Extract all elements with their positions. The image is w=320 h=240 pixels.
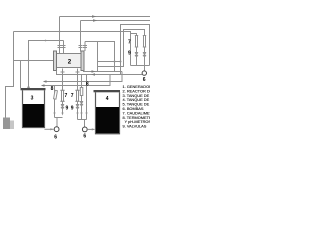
svg-text:9. VALVULAS: 9. VALVULAS — [123, 124, 147, 129]
svg-text:6: 6 — [54, 135, 57, 141]
wire L1 top gas line — [60, 16, 151, 18]
svg-text:8: 8 — [86, 81, 89, 87]
arrow on tank5 bottom line — [92, 70, 96, 72]
wire nested stub N3 — [131, 34, 137, 36]
thermometer col E — [80, 75, 83, 120]
reactor R2 right flange — [81, 51, 84, 71]
thermometer U8 left column — [54, 86, 58, 118]
arrow return 1 — [43, 80, 47, 82]
valve V-A — [61, 105, 64, 109]
arrow into tank4 — [92, 128, 95, 130]
tank4 col F — [86, 75, 88, 120]
wire pump3 drop — [56, 118, 58, 127]
wire header tank4 — [78, 119, 87, 121]
tank T3 rim — [21, 88, 46, 90]
svg-text:6: 6 — [83, 134, 86, 140]
node dot C — [59, 31, 61, 33]
wire pump4 drop — [84, 120, 86, 128]
wire pump4 discharge — [87, 128, 94, 130]
wire header right — [131, 65, 150, 67]
wire tank5 top link — [85, 41, 98, 43]
tank 5 — [98, 42, 121, 72]
wire riser inner loop — [63, 41, 65, 54]
wire return line 1 to tank3 — [42, 71, 122, 86]
wire nested line N1 — [121, 25, 150, 75]
valve V-R1 — [135, 53, 138, 57]
node dot D — [45, 40, 47, 42]
svg-text:7: 7 — [65, 93, 68, 99]
svg-text:7: 7 — [71, 93, 74, 99]
wire tank3 left drop — [20, 61, 22, 89]
wire riser right 1 — [80, 21, 82, 52]
wire return line 2 to tank3 — [42, 75, 110, 86]
wire header tank3 — [55, 117, 63, 119]
arrow L2 a — [93, 19, 98, 22]
svg-text:9: 9 — [71, 105, 74, 111]
tank T4 liquid — [96, 107, 119, 133]
wire riser right 2 — [84, 42, 86, 52]
reactor U2 ticks — [58, 46, 88, 48]
pump P3 — [54, 127, 59, 132]
tank T4 walls — [96, 92, 120, 134]
wire pump3 suction — [45, 128, 54, 130]
reactor R2 body — [57, 54, 82, 68]
wire outer loop left down — [6, 32, 14, 118]
wire L3 outer loop — [14, 32, 131, 66]
svg-text:8: 8 — [51, 86, 54, 92]
wire L2 second gas line — [81, 20, 151, 22]
wire pump right drop — [144, 66, 146, 71]
pump P4 — [82, 127, 87, 132]
node dot col A junction — [62, 81, 64, 83]
node dot A — [114, 61, 116, 63]
svg-text:9: 9 — [66, 105, 69, 111]
tank T3 walls — [23, 90, 45, 127]
valve V-E — [80, 102, 83, 106]
flowmeter R1 — [135, 36, 138, 66]
arrow return 2 — [41, 84, 45, 86]
tank3 drop foot — [27, 86, 30, 88]
arrow on discharge line — [91, 73, 95, 75]
reactor R2 left flange — [54, 51, 57, 71]
svg-text:3: 3 — [31, 96, 34, 102]
svg-text:9: 9 — [128, 51, 131, 57]
wire inner loop to tank 3 — [29, 41, 64, 89]
wire nested line N2 — [98, 30, 145, 67]
generator G1 dark part — [3, 118, 10, 130]
node dot E — [28, 60, 30, 62]
flowmeter col A — [60, 69, 64, 113]
svg-text:6: 6 — [143, 77, 146, 83]
wire tank5 bottom extension — [84, 71, 123, 72]
legend text — [123, 84, 183, 129]
generator G1 light part — [10, 121, 14, 130]
arrow down col A — [61, 113, 63, 116]
arrow down col E — [80, 113, 82, 116]
arrow L1 a — [92, 15, 97, 18]
tank T3 liquid — [23, 104, 44, 127]
arrow into pump3 — [50, 128, 53, 130]
arrow down col D — [76, 113, 78, 116]
arrow down col F — [85, 113, 87, 116]
arrow down col 8 — [53, 113, 55, 116]
svg-text:4: 4 — [106, 96, 109, 102]
flowmeter R2 — [143, 36, 146, 66]
valve V-R2 — [143, 53, 146, 57]
node dot B — [120, 61, 122, 63]
wire riser to L1 — [59, 17, 61, 54]
wire inner line a — [98, 61, 121, 63]
svg-text:2: 2 — [68, 59, 72, 66]
flowmeter col D — [75, 69, 79, 120]
wire reactor left feed — [14, 60, 54, 62]
valve V-D — [76, 105, 79, 109]
tank T4 rim — [94, 90, 121, 92]
wire discharge right pump long — [57, 71, 143, 75]
pump P5 right — [142, 71, 146, 75]
svg-text:7: 7 — [128, 39, 131, 45]
